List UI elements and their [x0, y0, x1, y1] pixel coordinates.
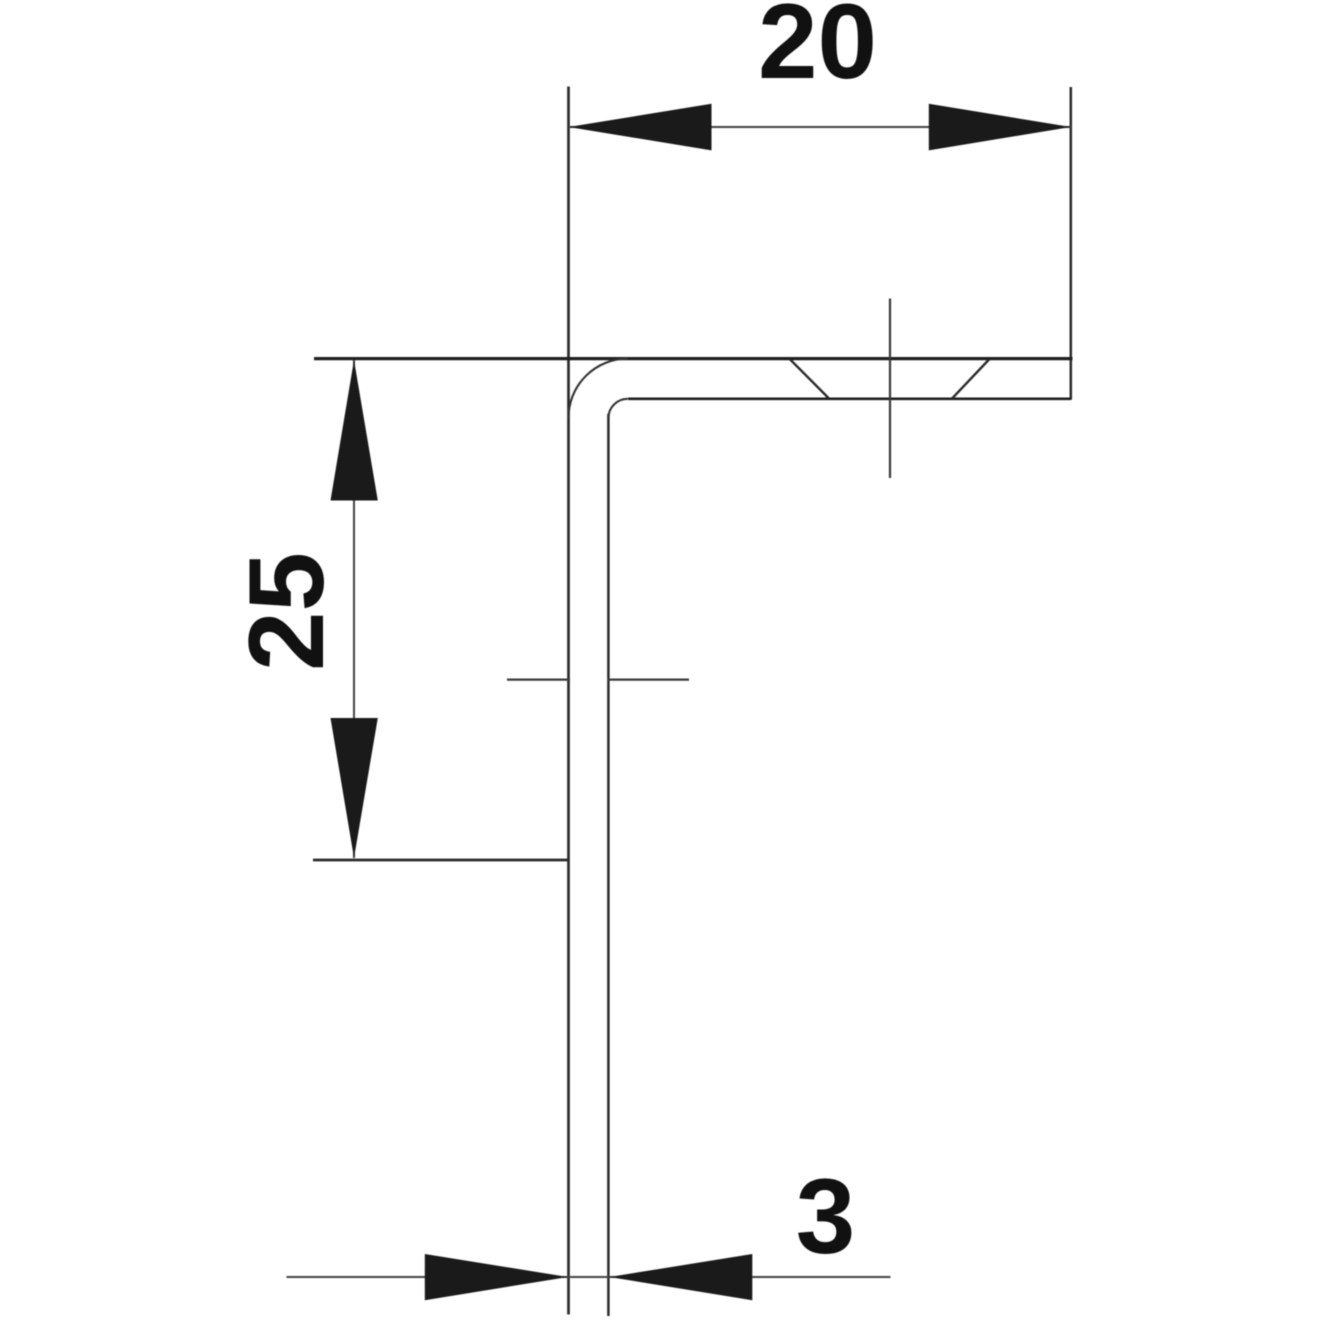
svg-text:3: 3 [796, 1156, 856, 1276]
svg-text:25: 25 [226, 552, 346, 671]
svg-text:20: 20 [758, 0, 877, 101]
